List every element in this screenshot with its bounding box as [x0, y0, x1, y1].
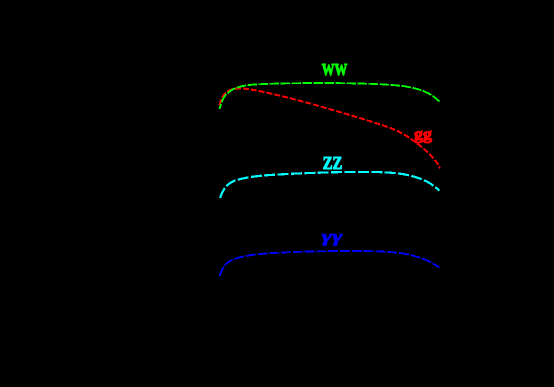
curve gamma-gamma (blue dashed): [220, 251, 440, 276]
svg-text:ZZ: ZZ: [323, 153, 343, 173]
svg-text:gg: gg: [414, 124, 433, 143]
curve ZZ (cyan dashed): [220, 172, 440, 198]
svg-text:γγ: γγ: [322, 227, 344, 246]
curve WW (green dashed): [220, 83, 440, 109]
svg-text:WW: WW: [322, 60, 348, 79]
curve gg (red dashed): [220, 89, 441, 169]
